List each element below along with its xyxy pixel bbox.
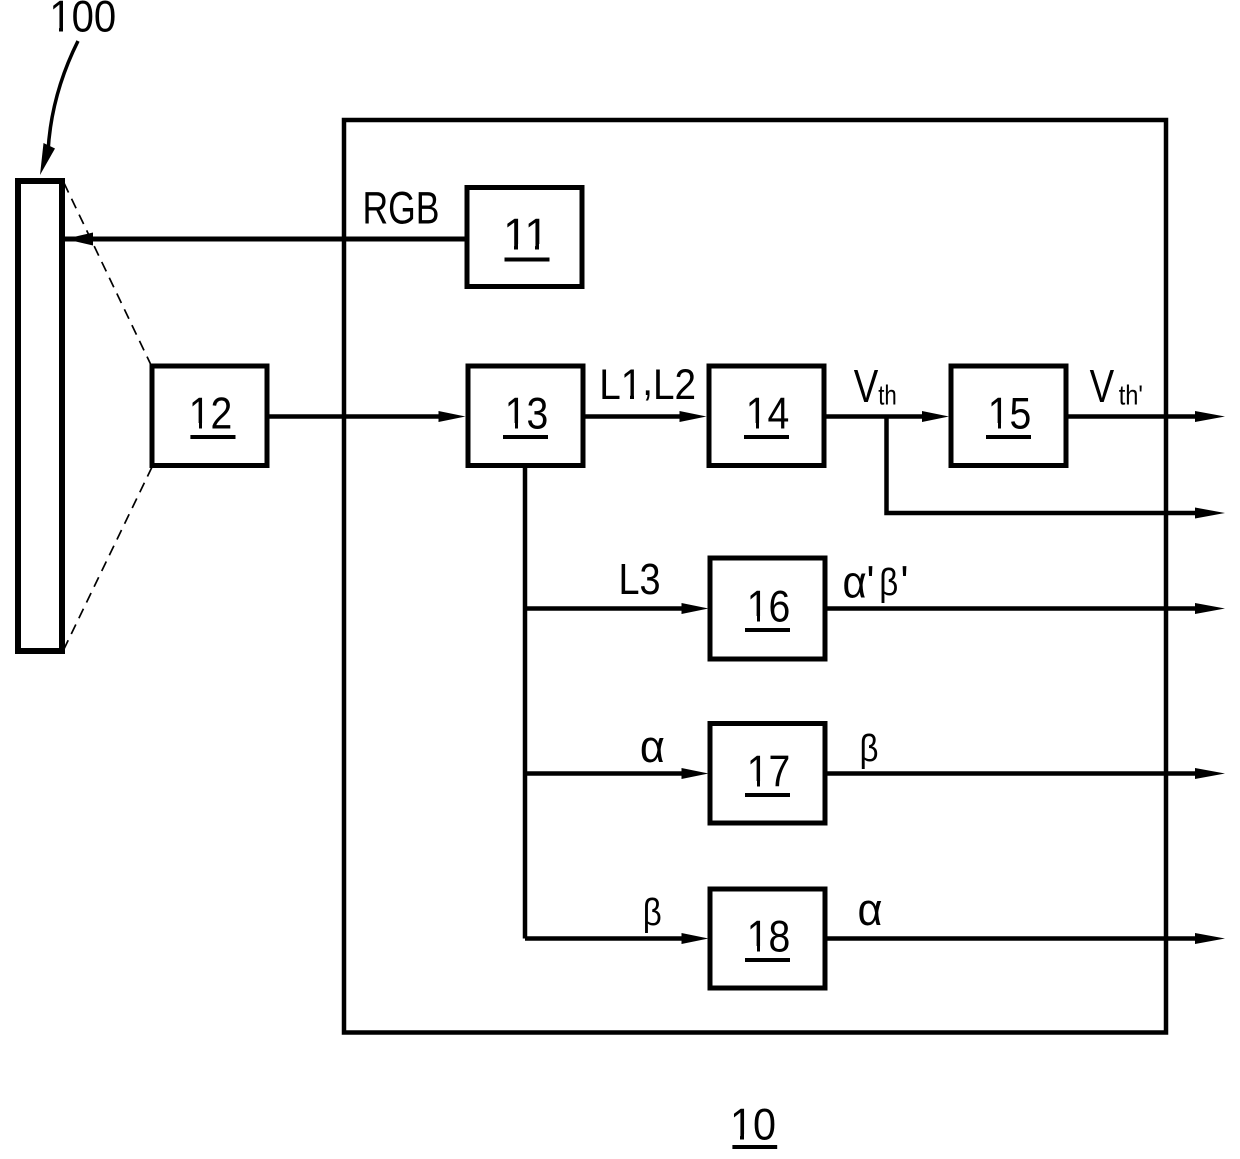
branch wire from Vth line down and right to second output: [887, 417, 1199, 514]
arrowhead into block 16: [682, 603, 709, 614]
leader arrow from label 100 to display panel: [40, 41, 78, 175]
branch wire alpha to block 17: [525, 771, 683, 776]
wire RGB from block 11 to panel: [65, 237, 467, 242]
svg-text:L1,L2: L1,L2: [599, 356, 696, 408]
display panel (100): [18, 181, 62, 651]
label alpha' beta': [843, 557, 867, 608]
arrowhead into block 17: [682, 768, 709, 779]
svg-text:β: β: [859, 727, 878, 770]
output arrowhead (beta): [1195, 768, 1225, 779]
svg-text:β: β: [879, 561, 898, 604]
block 18: [710, 889, 825, 988]
block 13: [468, 366, 583, 466]
arrowhead into block 18: [682, 933, 709, 944]
svg-text:th': th': [1119, 381, 1143, 411]
wire Vth from block 14 to block 15: [824, 414, 923, 419]
block 17: [710, 724, 825, 824]
svg-text:11: 11: [503, 210, 549, 259]
svg-text:β: β: [643, 891, 662, 934]
svg-text:14: 14: [746, 388, 790, 438]
svg-text:V: V: [854, 360, 879, 412]
output wire from block 17: [825, 771, 1198, 776]
svg-text:18: 18: [747, 911, 791, 961]
svg-text:100: 100: [49, 0, 116, 41]
label 10: [730, 1100, 777, 1150]
label L1,L2: [599, 356, 696, 408]
arrowhead into panel: [65, 233, 93, 246]
vertical wire from block 13 down to branches: [523, 465, 528, 939]
svg-text:α: α: [858, 885, 883, 935]
label beta out of 17: [859, 727, 878, 770]
svg-text:': ': [867, 557, 875, 608]
block 14: [709, 366, 824, 466]
wire block 12 to block 13: [267, 414, 440, 419]
svg-text:L3: L3: [618, 554, 660, 603]
arrowhead into block 14: [680, 411, 707, 422]
label beta into 18: [643, 891, 662, 934]
label alpha out of 18: [858, 885, 883, 935]
svg-text:α: α: [843, 557, 867, 608]
block 12: [152, 366, 267, 466]
label Vth: [854, 360, 879, 412]
block 11: [467, 188, 582, 287]
white patches to remove serif feet of digit 1 glyphs: [51, 26, 1009, 1141]
svg-text:': ': [901, 557, 909, 608]
arrowhead into block 13: [439, 411, 466, 422]
svg-text:12: 12: [189, 388, 233, 438]
branch wire beta to block 18: [525, 936, 683, 941]
dashed line: block 12 bottom-left to panel bottom-right corner: [64, 467, 152, 649]
svg-text:17: 17: [747, 746, 791, 796]
label 100: [49, 0, 116, 41]
label L3: [618, 554, 660, 603]
output arrowhead Vth': [1195, 411, 1225, 422]
svg-text:V: V: [1090, 360, 1115, 412]
label Vth': [1090, 360, 1115, 412]
output arrowhead (alpha' beta'): [1195, 603, 1225, 614]
label alpha into 17: [640, 722, 665, 772]
svg-text:16: 16: [747, 581, 791, 631]
svg-text:13: 13: [505, 388, 549, 438]
output arrowhead (Vth branch): [1195, 508, 1225, 519]
arrowhead into block 15: [922, 411, 949, 422]
svg-text:15: 15: [988, 388, 1032, 438]
wire L1,L2 from block 13 to block 14: [583, 414, 681, 419]
output arrowhead (alpha): [1195, 933, 1225, 944]
svg-text:th: th: [878, 380, 897, 411]
branch wire L3 to block 16: [525, 606, 683, 611]
wire Vth' output from block 15: [1066, 414, 1198, 419]
dashed line: panel top-right corner to block 12 top-left: [64, 183, 151, 365]
output wire from block 18: [825, 936, 1198, 941]
output wire from block 16: [825, 606, 1198, 611]
block 16: [710, 558, 825, 659]
svg-text:10: 10: [730, 1100, 776, 1150]
block 15: [951, 366, 1066, 466]
system box 10: [344, 120, 1166, 1033]
svg-text:α: α: [640, 722, 665, 772]
svg-text:RGB: RGB: [362, 182, 439, 233]
label RGB: [362, 182, 439, 233]
